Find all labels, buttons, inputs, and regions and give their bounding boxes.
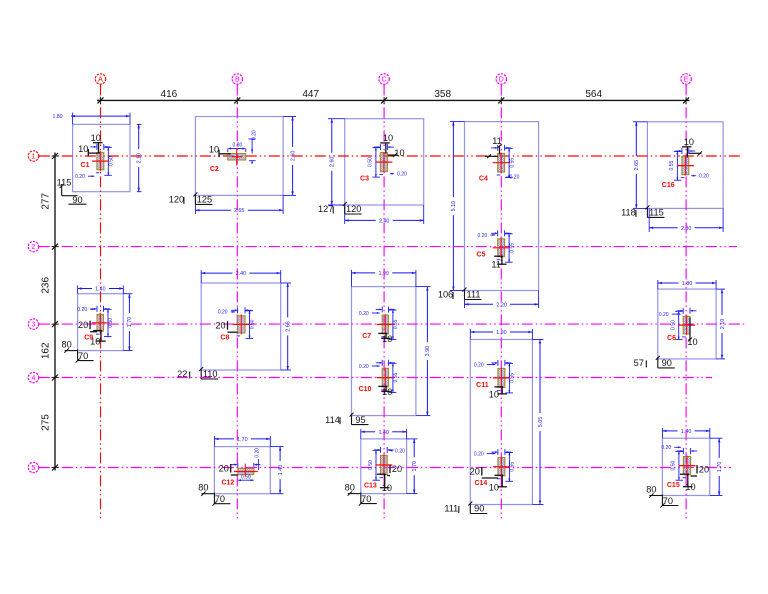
svg-text:0.50: 0.50 xyxy=(109,156,115,166)
svg-text:0.55: 0.55 xyxy=(510,373,516,383)
svg-text:0.55: 0.55 xyxy=(393,373,399,383)
svg-text:0.20: 0.20 xyxy=(699,174,709,180)
svg-text:20: 20 xyxy=(215,321,225,331)
svg-text:10: 10 xyxy=(685,482,695,492)
svg-text:D: D xyxy=(499,77,504,84)
svg-text:95: 95 xyxy=(355,415,365,425)
svg-text:10: 10 xyxy=(687,337,697,347)
svg-text:90: 90 xyxy=(474,504,484,514)
svg-text:2: 2 xyxy=(32,244,36,251)
svg-text:C12: C12 xyxy=(221,479,234,486)
svg-text:10: 10 xyxy=(394,148,404,158)
svg-text:C7: C7 xyxy=(362,333,371,340)
svg-text:C1: C1 xyxy=(81,162,90,169)
svg-text:1.80: 1.80 xyxy=(682,281,693,287)
svg-text:B: B xyxy=(235,77,240,84)
svg-text:10: 10 xyxy=(382,387,392,397)
svg-text:1.70: 1.70 xyxy=(717,462,723,473)
svg-text:1.40: 1.40 xyxy=(278,465,284,476)
svg-text:0.55: 0.55 xyxy=(669,161,675,171)
svg-text:80: 80 xyxy=(646,485,656,495)
svg-text:10: 10 xyxy=(383,133,393,143)
svg-text:2.10: 2.10 xyxy=(137,153,143,164)
svg-text:C8: C8 xyxy=(220,335,229,342)
svg-text:C15: C15 xyxy=(667,482,680,489)
svg-text:0.50: 0.50 xyxy=(108,318,114,328)
svg-text:0.20: 0.20 xyxy=(659,312,669,318)
svg-text:11: 11 xyxy=(491,260,501,270)
svg-text:C2: C2 xyxy=(210,166,219,173)
svg-text:1.70: 1.70 xyxy=(127,317,133,328)
svg-text:10: 10 xyxy=(91,133,101,143)
svg-text:2.65: 2.65 xyxy=(286,321,292,332)
svg-text:10: 10 xyxy=(684,137,694,147)
svg-text:1: 1 xyxy=(32,154,36,161)
svg-text:10: 10 xyxy=(489,482,499,492)
svg-text:57: 57 xyxy=(634,358,644,368)
svg-text:5.10: 5.10 xyxy=(451,201,457,212)
svg-text:114: 114 xyxy=(325,415,340,425)
svg-text:0.20: 0.20 xyxy=(395,448,405,454)
svg-text:80: 80 xyxy=(61,340,71,350)
svg-text:2.65: 2.65 xyxy=(234,208,245,214)
svg-text:0.80: 0.80 xyxy=(233,143,243,149)
svg-text:0.20: 0.20 xyxy=(661,445,671,451)
svg-text:120: 120 xyxy=(346,204,361,214)
svg-text:A: A xyxy=(98,77,103,84)
svg-text:90: 90 xyxy=(662,358,672,368)
svg-text:10: 10 xyxy=(382,334,392,344)
svg-text:3: 3 xyxy=(32,322,36,329)
svg-text:1.80: 1.80 xyxy=(52,114,62,120)
svg-text:0.55: 0.55 xyxy=(509,158,515,168)
svg-text:C5: C5 xyxy=(477,252,486,259)
svg-text:3.90: 3.90 xyxy=(425,346,431,357)
svg-text:0.55: 0.55 xyxy=(510,462,516,472)
svg-text:C13: C13 xyxy=(364,482,377,489)
svg-text:C3: C3 xyxy=(360,176,369,183)
svg-text:0.50: 0.50 xyxy=(368,157,374,167)
svg-text:70: 70 xyxy=(78,351,88,361)
svg-text:0.50: 0.50 xyxy=(241,474,251,480)
svg-text:447: 447 xyxy=(302,89,319,100)
svg-text:70: 70 xyxy=(663,496,673,506)
svg-text:70: 70 xyxy=(215,494,225,504)
svg-text:0.20: 0.20 xyxy=(478,233,488,239)
svg-text:0.20: 0.20 xyxy=(359,311,369,317)
svg-text:277: 277 xyxy=(41,193,52,210)
svg-text:80: 80 xyxy=(198,483,208,493)
svg-text:0.50: 0.50 xyxy=(250,319,256,329)
svg-text:0.20: 0.20 xyxy=(254,448,260,458)
svg-text:E: E xyxy=(684,77,689,84)
svg-text:20: 20 xyxy=(392,464,402,474)
svg-text:C6: C6 xyxy=(667,335,676,342)
svg-text:5: 5 xyxy=(32,465,36,472)
svg-text:C14: C14 xyxy=(474,480,487,487)
svg-text:90: 90 xyxy=(72,195,82,205)
svg-text:20: 20 xyxy=(699,465,709,475)
svg-text:0.20: 0.20 xyxy=(251,130,257,140)
svg-text:416: 416 xyxy=(161,89,178,100)
svg-text:564: 564 xyxy=(585,89,602,100)
svg-text:C: C xyxy=(382,77,387,84)
svg-text:127: 127 xyxy=(318,204,333,214)
svg-text:4: 4 xyxy=(32,375,36,382)
svg-text:5.05: 5.05 xyxy=(538,417,544,428)
svg-text:0.20: 0.20 xyxy=(397,172,407,178)
svg-text:358: 358 xyxy=(434,89,451,100)
svg-text:0.20: 0.20 xyxy=(474,451,484,457)
svg-text:118: 118 xyxy=(621,208,636,218)
svg-text:275: 275 xyxy=(41,414,52,431)
svg-text:115: 115 xyxy=(57,177,72,187)
svg-text:0.55: 0.55 xyxy=(509,243,515,253)
svg-text:20: 20 xyxy=(219,464,229,474)
svg-text:10: 10 xyxy=(78,144,88,154)
svg-text:C4: C4 xyxy=(479,175,488,182)
svg-text:2.20: 2.20 xyxy=(496,302,507,308)
svg-text:2.65: 2.65 xyxy=(634,160,640,171)
svg-text:120: 120 xyxy=(169,195,184,205)
svg-text:0.50: 0.50 xyxy=(671,320,677,330)
svg-text:115: 115 xyxy=(649,208,664,218)
svg-text:1.70: 1.70 xyxy=(237,437,248,443)
svg-text:0.50: 0.50 xyxy=(368,460,374,470)
svg-text:0.20: 0.20 xyxy=(474,362,484,368)
svg-text:C16: C16 xyxy=(662,182,675,189)
svg-text:10: 10 xyxy=(382,483,392,493)
svg-text:C9: C9 xyxy=(84,334,93,341)
svg-text:70: 70 xyxy=(361,494,371,504)
svg-text:10: 10 xyxy=(209,145,219,155)
svg-text:10: 10 xyxy=(489,389,499,399)
svg-text:C10: C10 xyxy=(359,386,372,393)
svg-text:162: 162 xyxy=(41,342,52,359)
svg-text:20: 20 xyxy=(78,320,88,330)
svg-text:0.20: 0.20 xyxy=(77,307,87,313)
svg-text:111: 111 xyxy=(444,504,458,514)
svg-text:80: 80 xyxy=(345,483,355,493)
svg-text:20: 20 xyxy=(470,467,480,477)
svg-text:0.55: 0.55 xyxy=(393,319,399,329)
svg-text:236: 236 xyxy=(41,277,52,294)
svg-text:1.70: 1.70 xyxy=(412,461,418,472)
svg-text:C11: C11 xyxy=(476,382,489,389)
svg-text:0.20: 0.20 xyxy=(218,310,228,316)
svg-text:0.20: 0.20 xyxy=(75,174,85,180)
svg-text:106: 106 xyxy=(438,290,453,300)
svg-text:125: 125 xyxy=(197,195,212,205)
svg-text:0.20: 0.20 xyxy=(359,364,369,370)
svg-text:111: 111 xyxy=(467,290,481,300)
svg-text:2.60: 2.60 xyxy=(330,157,336,168)
svg-text:0.50: 0.50 xyxy=(671,461,677,471)
